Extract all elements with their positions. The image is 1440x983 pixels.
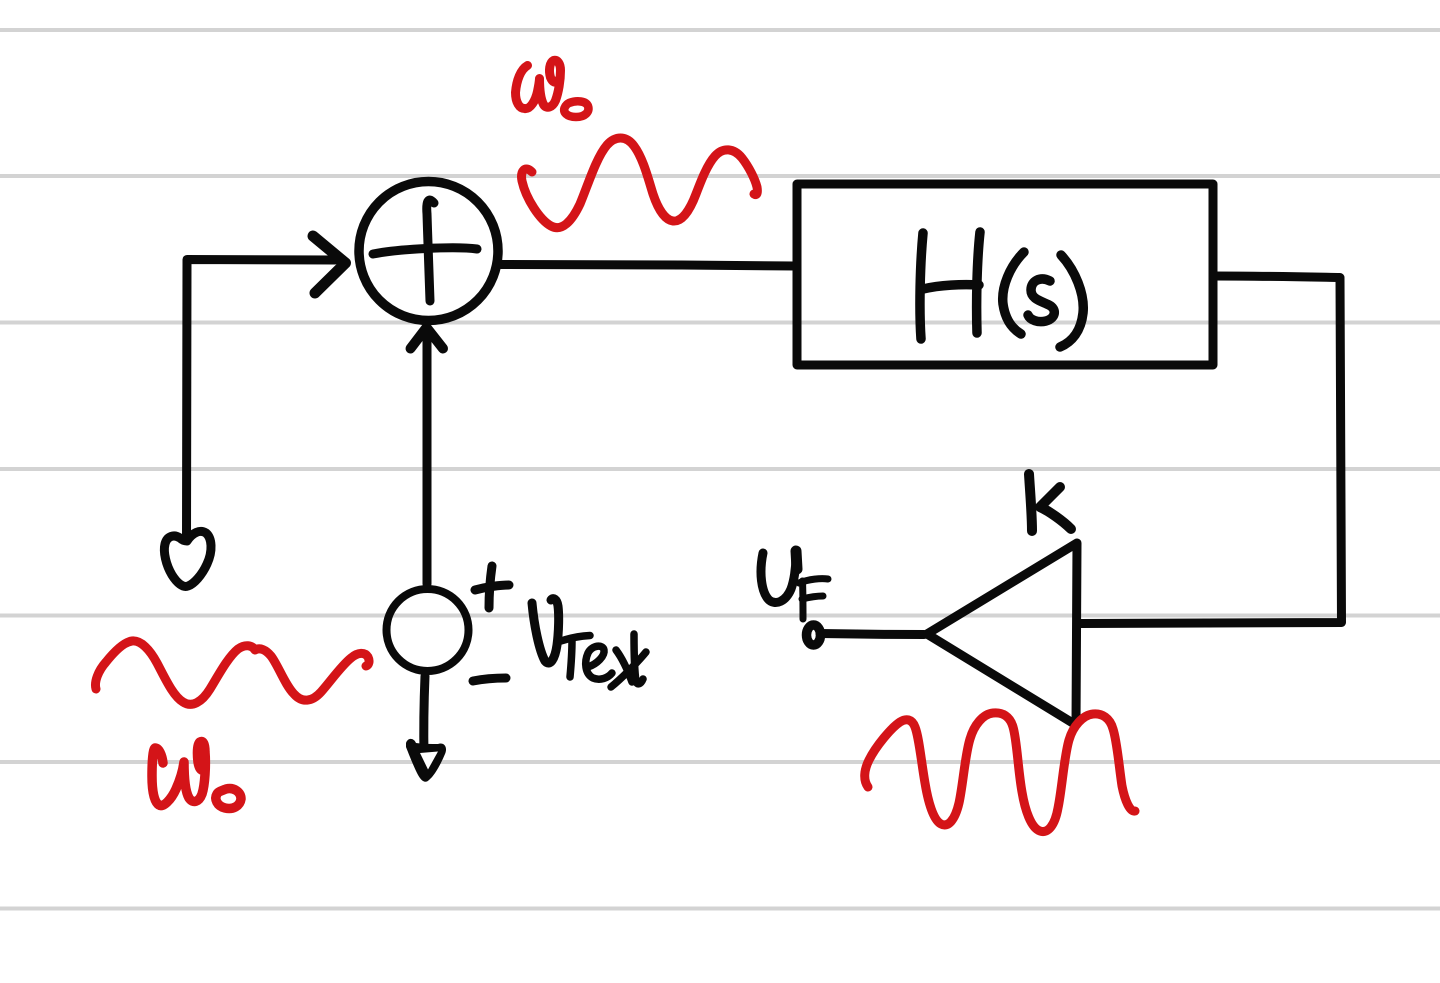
label plus of V_Test	[475, 566, 509, 608]
red annotation: sine wave (top, after summer)	[522, 138, 758, 228]
arrowhead: triangular outline at V_Test bottom	[406, 739, 446, 782]
amplifier K: triangle pointing left	[927, 543, 1077, 725]
summing junction S1: circle	[359, 182, 498, 321]
arrowhead: chevron into summer from below	[411, 328, 444, 349]
node: blob at start of amplifier output wire	[807, 625, 821, 645]
label minus of V_Test	[473, 678, 506, 681]
red annotation: sine wave (left of V_Test)	[95, 641, 369, 704]
block H(s): rectangle	[797, 184, 1213, 365]
wire: V_Test up to summer	[423, 333, 432, 584]
wire: summer output to H(s)	[501, 264, 795, 266]
summing junction S1: plus sign	[373, 200, 477, 301]
wire: H(s) output, right then down then left to amplifier	[1081, 276, 1342, 624]
label U_F at amplifier output	[761, 551, 828, 619]
red label omega_0 (top)	[516, 60, 589, 117]
source V_Test: circle	[387, 589, 469, 671]
wire: V_Test bottom lead	[424, 676, 425, 756]
label V_Test	[532, 599, 646, 687]
arrowhead: chevron into summer from left	[313, 236, 346, 293]
label H(s) inside block	[920, 232, 1083, 347]
label k above amplifier	[1029, 474, 1071, 531]
arrowhead: teardrop at end of input feed	[164, 531, 211, 586]
red annotation: sine wave (below amplifier)	[865, 713, 1135, 832]
wire: amplifier output lead	[820, 634, 924, 635]
red label omega_0 (bottom left)	[152, 741, 241, 808]
wire: input feed (horizontal then down on left)	[187, 260, 336, 539]
